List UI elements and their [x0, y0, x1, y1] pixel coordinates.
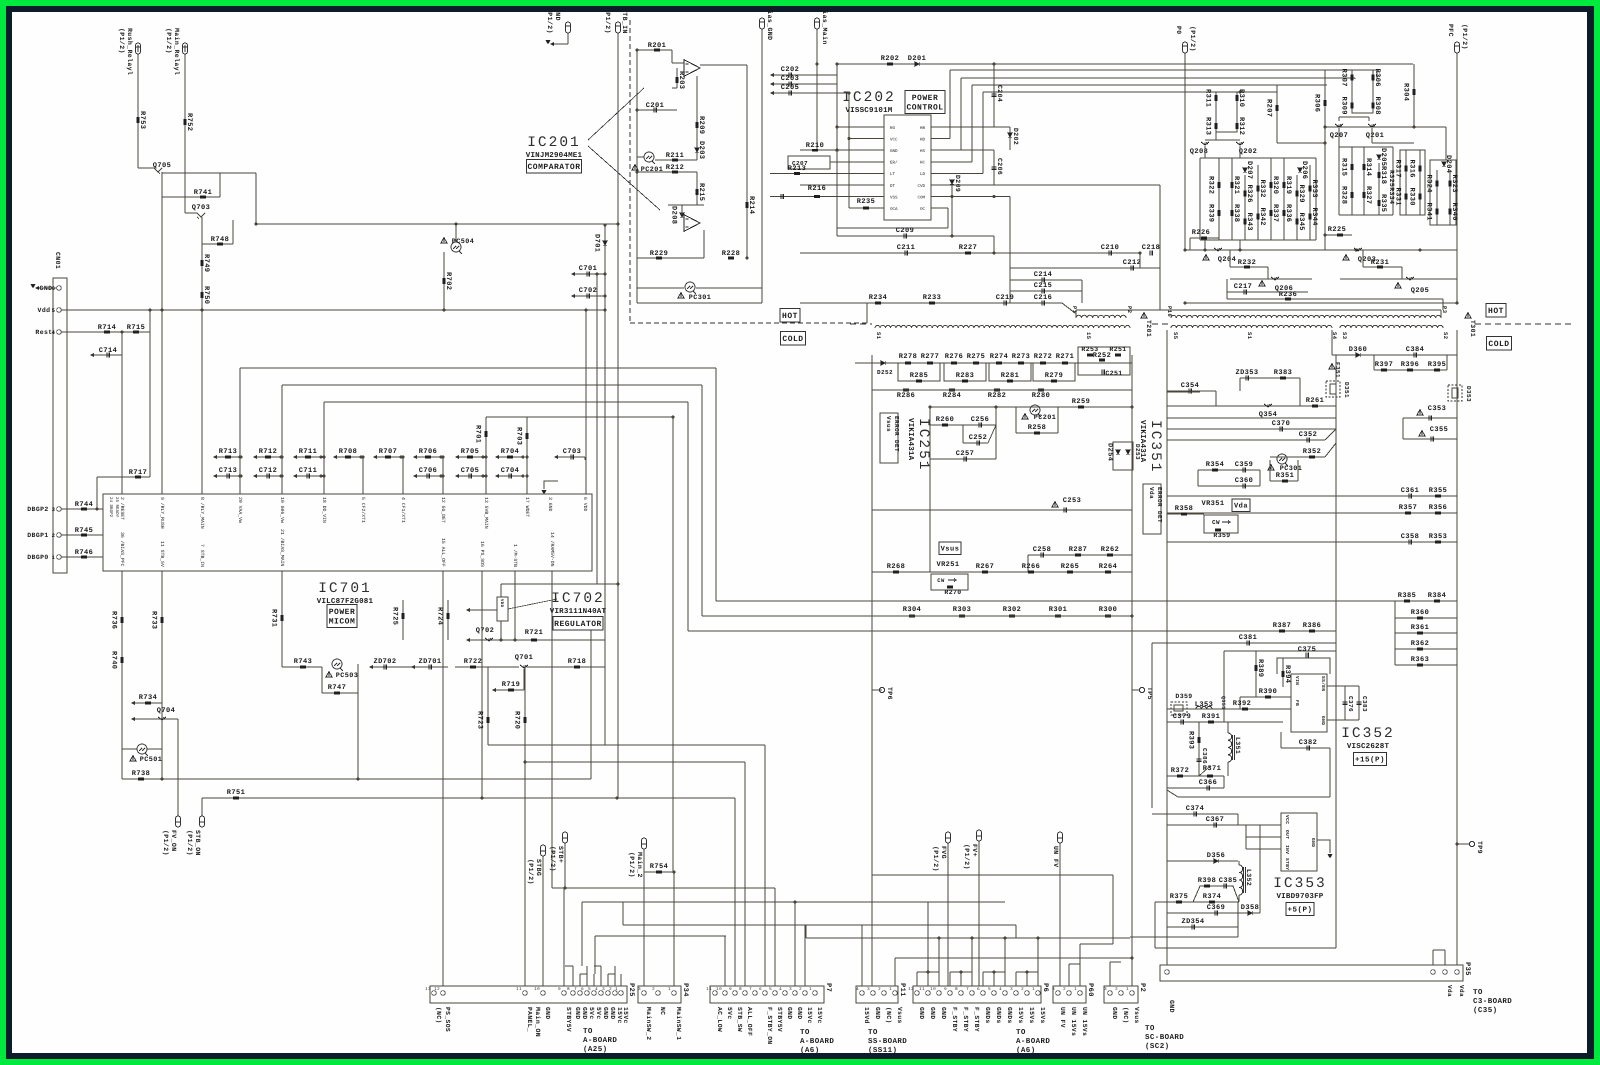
svg-text:COM: COM: [917, 195, 925, 200]
wire rail4 LD: [982, 92, 984, 173]
connector pill PFC: [1455, 42, 1460, 53]
svg-text:R384: R384: [1428, 592, 1446, 600]
svg-text:6: 6: [759, 987, 762, 992]
pin P25.P: [523, 991, 528, 996]
svg-text:C383: C383: [1361, 696, 1368, 712]
svg-text:7: 7: [574, 987, 577, 992]
svg-text:R354: R354: [1206, 461, 1224, 469]
pin P35.1 Vda: [1455, 970, 1460, 975]
capacitor C207 box: [788, 156, 830, 169]
svg-text:VSS: VSS: [890, 195, 898, 200]
transistor Q202: [1236, 142, 1244, 145]
route DDVIN: [323, 402, 325, 494]
resistor R352: [1270, 456, 1325, 458]
wire: [402, 457, 404, 494]
resistor R229: [656, 257, 662, 260]
pin P35.4 GND: [1165, 970, 1170, 975]
resistor R718: [574, 666, 580, 669]
svg-text:Bias_Main: Bias_Main: [821, 6, 828, 45]
svg-text:R287: R287: [1069, 546, 1087, 554]
resistor R375: [1176, 901, 1182, 904]
wire rail3 HC: [971, 85, 973, 162]
svg-text:C384: C384: [1406, 346, 1424, 354]
resistor R258: [1016, 432, 1058, 434]
svg-text:A-BOARD: A-BOARD: [800, 1037, 834, 1046]
connector pill Bias_GND: [760, 18, 765, 29]
svg-text:COLD: COLD: [1488, 340, 1509, 349]
transformer T201 primary winding: [1076, 315, 1126, 318]
bridge P6 15vs: [1016, 971, 1038, 973]
capacitor C366: [1167, 787, 1224, 789]
svg-text:C202: C202: [781, 66, 799, 74]
resistor R201: [637, 49, 672, 51]
transformer T301 secondary S3 S2: [1340, 325, 1443, 328]
resistor R226: [1190, 237, 1219, 239]
resistor R706: [413, 455, 417, 459]
svg-text:GND: GND: [918, 1007, 925, 1020]
resistor R227: [965, 252, 971, 255]
svg-text:R272: R272: [1034, 353, 1052, 361]
svg-text:R723: R723: [476, 711, 484, 729]
resistor R384: [1434, 600, 1440, 603]
opto PC503: [332, 659, 342, 669]
capacitor C211: [905, 251, 907, 256]
svg-text:VIKIA431A: VIKIA431A: [906, 418, 915, 461]
opto PC201 right: [1030, 405, 1040, 415]
svg-text:F_STBY: F_STBY: [973, 1007, 980, 1032]
svg-text:2: 2: [799, 987, 802, 992]
resistor R391: [1208, 721, 1214, 724]
resistor R304b: [909, 615, 915, 618]
svg-text:IC702: IC702: [551, 591, 605, 607]
wire: [161, 457, 163, 494]
svg-text:FVG: FVG: [940, 846, 947, 859]
svg-text:R329: R329: [1297, 185, 1305, 203]
svg-text:R357: R357: [1399, 504, 1417, 512]
op-amp U1b: [684, 215, 700, 232]
connector P34: [638, 986, 681, 1003]
svg-text:R229: R229: [650, 250, 668, 258]
svg-text:C367: C367: [1206, 816, 1224, 824]
pin P25.G: [578, 991, 583, 996]
svg-text:HC: HC: [920, 161, 926, 166]
resistor R337: [1270, 210, 1273, 216]
svg-text:11: 11: [919, 987, 925, 992]
svg-text:R374: R374: [1203, 893, 1221, 901]
svg-text:R715: R715: [127, 324, 145, 332]
svg-text:D209: D209: [954, 175, 961, 192]
svg-text:R340: R340: [1450, 203, 1458, 221]
resistor R324: [1436, 170, 1438, 225]
svg-text:SS-BOARD: SS-BOARD: [868, 1037, 907, 1046]
svg-text:GND: GND: [890, 149, 898, 154]
svg-text:6: 6: [977, 987, 980, 992]
+15(P) box: [1354, 753, 1387, 766]
pin P25.P: [441, 991, 446, 996]
resistor R374: [1209, 901, 1215, 904]
svg-text:R306: R306: [1373, 69, 1381, 87]
connector CN01: [53, 278, 67, 573]
svg-text:10: 10: [716, 987, 722, 992]
svg-text:(NC): (NC): [885, 1007, 892, 1024]
svg-text:R283: R283: [956, 372, 974, 380]
pin P25.5: [585, 991, 590, 996]
capacitor C383: [1358, 686, 1360, 720]
svg-text:Vsus: Vsus: [941, 545, 960, 553]
svg-text:16 PS_SOS: 16 PS_SOS: [479, 541, 485, 567]
svg-text:R330: R330: [1408, 188, 1416, 206]
wire: [201, 457, 203, 494]
svg-text:R743: R743: [294, 658, 312, 666]
resistor R332: [1257, 165, 1259, 240]
svg-text:(SC2): (SC2): [1145, 1042, 1170, 1051]
svg-text:R703: R703: [515, 427, 523, 445]
svg-text:C713: C713: [219, 467, 237, 475]
wire Rest: [61, 331, 150, 333]
svg-text:R345: R345: [1297, 213, 1305, 231]
pin DBGP0: [57, 555, 62, 560]
svg-text:R342: R342: [1258, 208, 1266, 226]
resistor R274: [996, 362, 1002, 365]
svg-text:Q704: Q704: [157, 707, 175, 715]
capacitor C714: [90, 353, 94, 357]
svg-text:D356: D356: [1207, 852, 1225, 860]
svg-text:(P1/2): (P1/2): [604, 8, 611, 34]
resistor R372: [1177, 775, 1183, 778]
svg-text:R276: R276: [945, 353, 963, 361]
svg-text:(P1/2): (P1/2): [932, 846, 939, 872]
svg-text:R343: R343: [1245, 213, 1253, 231]
pin wire: [876, 149, 884, 151]
svg-text:R752: R752: [185, 113, 193, 131]
svg-text:MainSW_1: MainSW_1: [675, 1007, 682, 1040]
svg-text:R270: R270: [944, 589, 961, 596]
resistor R302: [1009, 615, 1015, 618]
resistor R751: [202, 797, 735, 799]
pin wire: [876, 196, 884, 198]
IC202 body: [884, 115, 931, 220]
svg-text:Bias_GND: Bias_GND: [766, 6, 773, 40]
resistor R273: [1018, 362, 1024, 365]
resistor R326: [1244, 175, 1246, 240]
svg-text:GND: GND: [929, 1007, 936, 1020]
svg-text:R273: R273: [1012, 353, 1030, 361]
svg-text:R275: R275: [967, 353, 985, 361]
capacitor C369: [1167, 912, 1238, 914]
POWER MICOM box: [327, 605, 357, 628]
diode D360: [1356, 353, 1360, 357]
svg-text:5: 5: [588, 987, 591, 992]
right rail: [1131, 355, 1133, 632]
svg-text:R265: R265: [1061, 563, 1079, 571]
resistor R362: [1395, 648, 1457, 650]
svg-text:STBG: STBG: [535, 859, 542, 876]
pin P34.M: [642, 991, 647, 996]
svg-text:R396: R396: [1401, 361, 1419, 369]
svg-text:HOT: HOT: [782, 312, 798, 321]
resistor R715: [133, 331, 139, 334]
svg-text:3: 3: [1104, 987, 1107, 992]
svg-text:C258: C258: [1033, 546, 1051, 554]
resistor R389: [1255, 651, 1257, 697]
row R357 R356: [1167, 512, 1457, 514]
diode D254 D253 box: [1113, 442, 1133, 470]
svg-text:R267: R267: [976, 563, 994, 571]
wire C211 row: [800, 252, 1140, 254]
svg-text:C711: C711: [299, 467, 317, 475]
pin P7.1: [803, 991, 808, 996]
svg-text:A-BOARD: A-BOARD: [583, 1036, 617, 1045]
svg-text:3: 3: [867, 987, 870, 992]
svg-text:(P1/2): (P1/2): [546, 8, 553, 34]
svg-text:STB_SW: STB_SW: [736, 1007, 743, 1032]
resistor R752: [184, 119, 187, 125]
wire top row: [855, 362, 1132, 364]
drop R720: [524, 667, 526, 762]
svg-text:Main_2: Main_2: [636, 852, 643, 878]
cluster R307 box: [1352, 70, 1373, 113]
resistor R703: [526, 417, 528, 457]
svg-text:C204: C204: [996, 85, 1003, 102]
resistor R713: [213, 455, 217, 459]
svg-text:R328: R328: [1340, 186, 1348, 204]
svg-text:R706: R706: [419, 448, 437, 456]
wire STB_IN: [617, 33, 619, 798]
svg-text:PC201: PC201: [1034, 414, 1056, 422]
wire: [696, 287, 762, 289]
svg-text:R201: R201: [648, 42, 666, 50]
svg-text:VISSC9101M: VISSC9101M: [845, 106, 892, 115]
svg-text:7: 7: [966, 987, 969, 992]
svg-text:P1: P1: [1071, 306, 1078, 314]
svg-text:F_STBY: F_STBY: [962, 1007, 969, 1032]
svg-text:T301: T301: [1469, 320, 1476, 337]
svg-text:8: 8: [739, 987, 742, 992]
svg-text:1: 1: [668, 987, 671, 992]
svg-text:4: 4: [856, 987, 859, 992]
svg-text:PANEL_: PANEL_: [526, 1007, 533, 1032]
svg-text:C701: C701: [579, 265, 597, 273]
svg-text:ZD702: ZD702: [373, 658, 396, 666]
opto PC301 right: [1277, 454, 1287, 464]
HOT label box: [780, 308, 800, 322]
resistor R261: [1300, 405, 1336, 407]
resistor R331: [1405, 194, 1408, 200]
connector pill STB+: [563, 832, 568, 843]
vert x872 lower: [871, 632, 873, 986]
svg-text:C218: C218: [1142, 244, 1160, 252]
capacitor C379: [1181, 720, 1183, 725]
svg-text:11 STB_5V: 11 STB_5V: [159, 541, 165, 567]
svg-text:L352: L352: [1245, 869, 1252, 886]
capacitor C204: [993, 64, 995, 127]
resistor R705: [455, 455, 459, 459]
resistor R743: [300, 666, 306, 669]
svg-text:(NC): (NC): [1122, 1007, 1129, 1024]
harness y958: [895, 957, 1132, 959]
resistor R271: [1062, 362, 1068, 365]
diode D208: [680, 213, 684, 217]
capacitor C367: [1214, 823, 1216, 828]
svg-text:STBY5V: STBY5V: [565, 1007, 572, 1032]
connector pill FVG: [946, 832, 951, 843]
wire: [872, 389, 1132, 391]
resistor R320: [1270, 158, 1272, 240]
svg-text:8: 8: [955, 987, 958, 992]
resistor R276: [951, 362, 957, 365]
wire gnd stub: [1317, 840, 1330, 853]
svg-text:R262: R262: [1101, 546, 1119, 554]
capacitor C216: [1042, 301, 1044, 306]
svg-text:P3: P3: [1441, 306, 1448, 314]
wire: [567, 33, 569, 44]
svg-text:C206: C206: [996, 158, 1003, 175]
svg-text:D205: D205: [1379, 148, 1387, 166]
resistor R234: [875, 302, 881, 305]
wire y690 stub: [872, 689, 882, 691]
route VAA: [239, 368, 241, 494]
transformer T201 primary winding 2: [875, 325, 1130, 328]
drop STBG: [542, 856, 544, 986]
resistor R265: [1067, 571, 1073, 574]
svg-text:R322: R322: [1207, 176, 1215, 194]
resistor R266: [1028, 571, 1034, 574]
resistor R286: [903, 389, 909, 392]
small box R253: [1078, 347, 1130, 375]
svg-text:VINJM2904ME1: VINJM2904ME1: [526, 151, 583, 160]
resistor R754: [644, 871, 674, 873]
COLD label box: [781, 331, 806, 345]
resistor R393: [1198, 722, 1200, 776]
svg-text:R711: R711: [299, 448, 317, 456]
vert x1132 lower: [1131, 632, 1133, 986]
svg-text:GND: GND: [1111, 1007, 1118, 1020]
svg-text:COMPARATOR: COMPARATOR: [527, 163, 580, 172]
svg-text:4 CF1/XT1: 4 CF1/XT1: [400, 497, 406, 523]
svg-text:R375: R375: [1170, 893, 1188, 901]
svg-text:R310: R310: [1237, 89, 1245, 107]
svg-text:D201: D201: [908, 55, 926, 63]
pin P25.5: [592, 991, 597, 996]
drop FVG: [947, 843, 949, 986]
resistor R345: [1296, 219, 1299, 225]
capacitor C361: [1409, 494, 1411, 499]
svg-text:2: 2: [1021, 987, 1024, 992]
svg-text:F_STBY: F_STBY: [951, 1007, 958, 1032]
resistor R385: [1404, 600, 1410, 603]
svg-text:PC503: PC503: [336, 672, 358, 680]
pin P6.F: [970, 991, 975, 996]
svg-text:R725: R725: [391, 607, 399, 625]
transistor Q354: [1167, 405, 1300, 407]
diode D353: [1448, 385, 1462, 401]
wire VCC: [848, 93, 850, 208]
capacitor C358: [1409, 540, 1411, 545]
resistor R317: [1405, 150, 1407, 215]
svg-text:GND: GND: [1320, 716, 1326, 725]
wire D701 branch: [604, 225, 606, 640]
pin P6.G: [992, 991, 997, 996]
svg-text:8: 8: [567, 987, 570, 992]
resistor R734: [131, 701, 135, 705]
resistor R277: [927, 362, 933, 365]
row C367: [1167, 824, 1281, 826]
capacitor C212: [1010, 267, 1160, 269]
svg-text:Rush_Relayl: Rush_Relayl: [126, 28, 133, 75]
svg-text:3 GND: 3 GND: [547, 497, 553, 512]
resistor R701: [485, 417, 487, 457]
wire rail2 HS: [960, 78, 962, 150]
IC352 body: [1291, 674, 1327, 732]
svg-text:Vda: Vda: [1234, 501, 1248, 510]
svg-text:TO: TO: [868, 1028, 878, 1037]
svg-text:R355: R355: [1429, 487, 1447, 495]
svg-text:6 VDD: 6 VDD: [582, 497, 588, 512]
svg-text:R271: R271: [1056, 353, 1074, 361]
svg-text:21 /BIAS_MAIN: 21 /BIAS_MAIN: [279, 529, 285, 567]
bridge P6 gnd: [917, 971, 939, 973]
resistor R341: [1436, 209, 1439, 215]
svg-text:R302: R302: [1003, 606, 1021, 614]
svg-text:R750: R750: [202, 286, 210, 304]
svg-text:C359: C359: [1235, 461, 1253, 469]
resistor R262: [1107, 554, 1113, 557]
svg-text:RG: RG: [890, 126, 896, 131]
diode D206: [1298, 168, 1302, 172]
pin P7.S: [733, 991, 738, 996]
svg-text:P7: P7: [824, 983, 832, 992]
svg-text:CW: CW: [937, 577, 945, 584]
svg-text:6: 6: [581, 987, 584, 992]
resistor R339: [1218, 210, 1221, 216]
svg-text:Q205: Q205: [1411, 287, 1429, 295]
svg-text:C366: C366: [1199, 779, 1217, 787]
wire: [362, 457, 364, 494]
svg-text:R264: R264: [1099, 563, 1117, 571]
wire: [703, 230, 705, 258]
capacitor C218: [1150, 251, 1152, 256]
diode D205: [1377, 155, 1381, 159]
resistor R314: [1363, 147, 1365, 215]
svg-text:R339: R339: [1207, 204, 1215, 222]
resistor R216: [770, 196, 884, 198]
svg-text:R744: R744: [75, 501, 93, 509]
svg-text:C205: C205: [781, 84, 799, 92]
resistor R717: [97, 476, 150, 478]
wire y875: [872, 874, 1113, 876]
svg-text:15Vc: 15Vc: [816, 1007, 823, 1024]
svg-text:PS_SOS: PS_SOS: [444, 1007, 451, 1032]
svg-text:R300: R300: [1099, 606, 1117, 614]
svg-text:2 /RESET: 2 /RESET: [119, 497, 125, 520]
svg-text:1: 1: [615, 987, 618, 992]
capacitor C214: [1010, 279, 1082, 281]
svg-text:CN01: CN01: [54, 252, 61, 269]
capacitor C258: [1041, 553, 1043, 558]
resistor R214: [746, 65, 748, 258]
svg-text:R351: R351: [1276, 472, 1294, 480]
svg-text:C216: C216: [1034, 294, 1052, 302]
svg-text:TO: TO: [583, 1027, 593, 1036]
resistor R318: [1378, 163, 1380, 215]
IC701 body: [103, 494, 592, 571]
resistor R225: [1325, 234, 1352, 236]
resistor R253: [1087, 354, 1093, 357]
resistor R281: [1007, 380, 1013, 383]
svg-text:C212: C212: [1123, 259, 1141, 267]
resistor R329: [1296, 175, 1298, 240]
svg-text:R281: R281: [1001, 372, 1019, 380]
